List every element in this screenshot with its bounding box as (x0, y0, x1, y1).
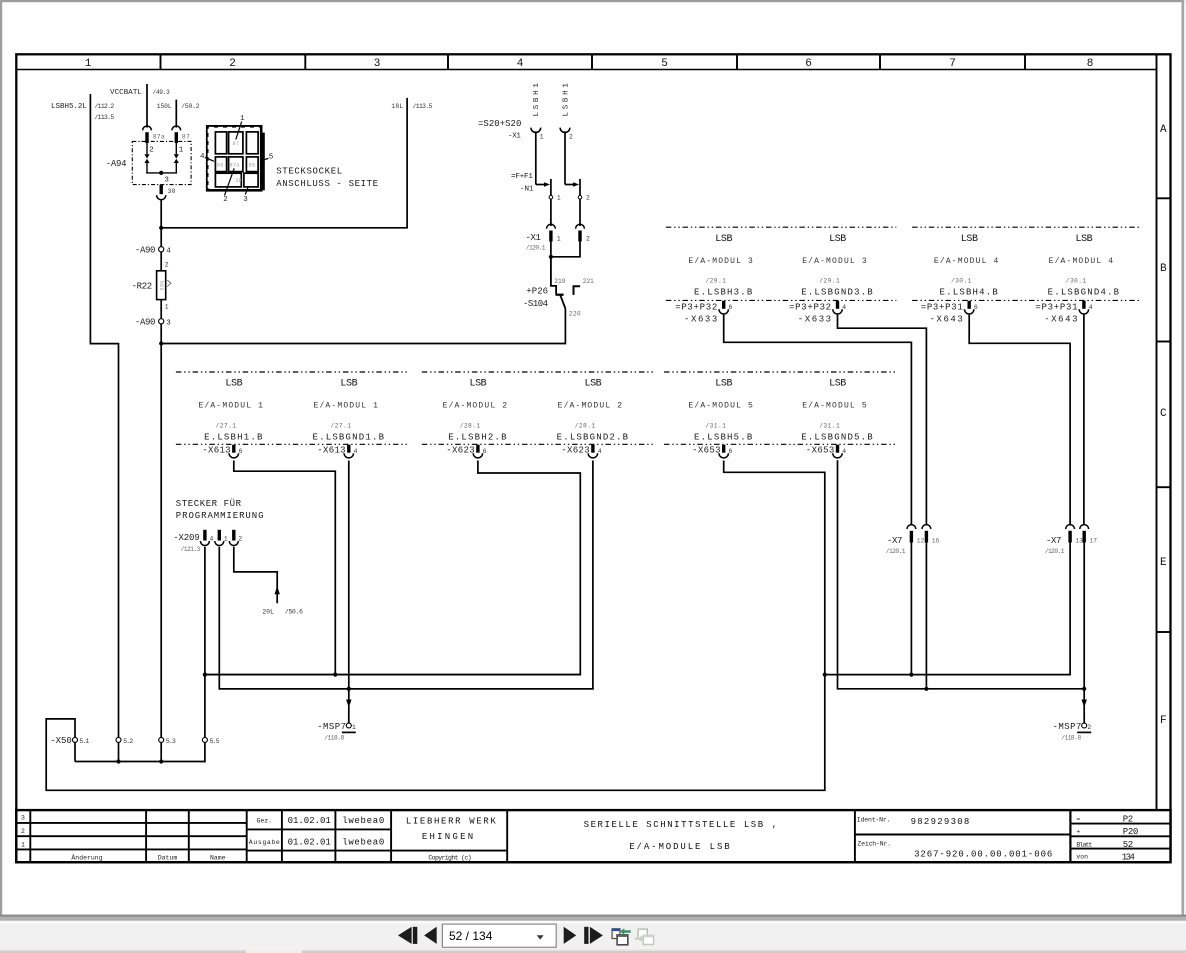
wire -X209:1 to bus B left (218, 547, 220, 690)
junction X1 pins (549, 255, 553, 259)
svg-text:86: 86 (217, 162, 224, 168)
ground -MSP7:1 /118.8 (317, 722, 356, 741)
svg-text:/49.3: /49.3 (153, 89, 171, 96)
svg-text:/112.2: /112.2 (95, 103, 115, 110)
wire -X7:12 to bus A right (910, 543, 912, 676)
svg-text:ANSCHLUSS - SEITE: ANSCHLUSS - SEITE (276, 179, 379, 189)
wire E.LSBH1.B to bus A left (234, 461, 335, 676)
svg-text:/113.5: /113.5 (413, 103, 433, 110)
bus A left segment (205, 674, 581, 676)
column header band (16, 54, 1156, 70)
svg-text:/113.5: /113.5 (95, 114, 115, 121)
relay socket -A94 (106, 126, 191, 200)
junction A94 pin3 (159, 171, 163, 175)
svg-text:20L: 20L (262, 609, 274, 616)
toolbar strip (0, 915, 1186, 918)
svg-text:500: 500 (159, 280, 165, 290)
svg-text:/31.1: /31.1 (819, 422, 840, 429)
svg-text:-X613: -X613 (317, 446, 346, 456)
svg-text:-X643: -X643 (930, 315, 964, 325)
svg-text:-A90: -A90 (135, 317, 156, 327)
svg-text:E.LSBH2.B: E.LSBH2.B (448, 432, 507, 442)
svg-text:134: 134 (1122, 852, 1135, 862)
svg-text:VCCBATL: VCCBATL (110, 89, 142, 97)
connector -X1 /120.1 pin 1 (526, 224, 561, 257)
svg-text:E/A-MODUL 4: E/A-MODUL 4 (1049, 257, 1114, 266)
svg-text:/27.1: /27.1 (216, 422, 237, 429)
svg-text:4: 4 (166, 247, 171, 255)
next page button (564, 927, 577, 944)
connector -X1 /120.1 pin 2 (552, 224, 590, 257)
svg-text:1: 1 (21, 841, 25, 848)
E/A-Modul 3 output E.LSBH3.B connector -X633:6 (675, 234, 753, 325)
svg-text:C: C (1160, 408, 1167, 420)
svg-text:/118.8: /118.8 (1061, 734, 1081, 741)
svg-text:87: 87 (233, 141, 240, 147)
svg-text:B: B (1160, 263, 1167, 275)
E/A module block border row C left (176, 371, 408, 373)
wire S104:220 to rail (162, 309, 565, 344)
svg-text:/30.1: /30.1 (1066, 278, 1087, 285)
svg-text:LSB: LSB (225, 379, 242, 390)
svg-text:85: 85 (249, 162, 256, 168)
svg-text:4: 4 (200, 153, 205, 161)
svg-text:-MSP7: -MSP7 (1053, 722, 1083, 732)
wire E.LSBH4.B to -X7:13 (969, 315, 1070, 526)
last page button (584, 927, 588, 944)
svg-text:150L: 150L (157, 103, 172, 110)
junction node to 18L rail (159, 226, 163, 230)
svg-text:4: 4 (210, 535, 214, 542)
svg-text:3267-920.00.00.001-006: 3267-920.00.00.001-006 (914, 849, 1052, 859)
svg-text:Zeich-Nr.: Zeich-Nr. (857, 840, 891, 847)
svg-text:P2: P2 (1123, 814, 1133, 824)
svg-text:221: 221 (583, 278, 594, 285)
row letter band A-F (1157, 54, 1171, 810)
svg-text:3: 3 (166, 319, 171, 327)
svg-text:E.LSBGND2.B: E.LSBGND2.B (557, 432, 630, 442)
connector -X209 /121.3 pin 1 (215, 530, 228, 546)
svg-text:E.LSBGND5.B: E.LSBGND5.B (801, 432, 874, 442)
wire E.LSBH5.B via bottom loop to -X50:5.1 (46, 461, 825, 791)
svg-text:E.LSBH3.B: E.LSBH3.B (694, 288, 753, 298)
svg-text:E/A-MODUL 3: E/A-MODUL 3 (688, 257, 753, 266)
svg-text:Ident-Nr.: Ident-Nr. (857, 817, 891, 824)
connector =S20+S20 -X1 pin 2 (560, 128, 573, 185)
svg-text:30: 30 (168, 188, 176, 195)
svg-text:2: 2 (238, 535, 242, 542)
svg-text:-R22: -R22 (132, 282, 153, 292)
wire E.LSBGND3.B to -X7:16 (838, 315, 927, 526)
connector -X50 pin 5.3 (159, 737, 176, 762)
svg-text:E.LSBH1.B: E.LSBH1.B (204, 432, 263, 442)
svg-text:/29.1: /29.1 (819, 278, 840, 285)
svg-text:E.LSBH4.B: E.LSBH4.B (940, 288, 999, 298)
svg-text:-X623: -X623 (446, 446, 475, 456)
svg-text:E/A-MODUL 1: E/A-MODUL 1 (314, 402, 379, 411)
svg-text:E/A-MODUL 5: E/A-MODUL 5 (802, 402, 867, 411)
svg-text:5.3: 5.3 (166, 738, 176, 745)
svg-text:LIEBHERR WERK: LIEBHERR WERK (406, 816, 496, 826)
svg-text:LSB: LSB (340, 379, 357, 390)
svg-text:/30.1: /30.1 (951, 278, 972, 285)
connector -A90 pin 4 (135, 228, 171, 256)
fuse =F+F1 -N1 pole 2 (565, 179, 590, 226)
svg-text:/31.1: /31.1 (705, 422, 726, 429)
svg-text:-X643: -X643 (1044, 315, 1078, 325)
E/A-Modul 5 output E.LSBGND5.B connector -X653:4 (801, 379, 874, 458)
svg-text:-X50: -X50 (50, 736, 72, 746)
svg-text:87a: 87a (230, 162, 240, 168)
svg-text:-MSP7: -MSP7 (317, 722, 347, 732)
previous view button (612, 928, 631, 945)
first page button (398, 927, 412, 944)
connector -X50 pin 5.5 (202, 737, 219, 762)
svg-text:+: + (1076, 828, 1080, 835)
E/A-Modul 2 output E.LSBH2.B connector -X623:6 (443, 379, 508, 458)
connector -X50 pin 5.2 (116, 737, 133, 762)
svg-text:5.2: 5.2 (123, 738, 133, 745)
svg-text:2: 2 (569, 133, 573, 140)
wire 150L from /50.2 (157, 100, 200, 128)
svg-text:Datum: Datum (158, 854, 178, 861)
svg-text:1: 1 (179, 147, 184, 155)
svg-text:=S20+S20: =S20+S20 (478, 119, 522, 129)
wire down to -X50:5.3 (160, 344, 162, 738)
svg-text:-X633: -X633 (798, 315, 832, 325)
svg-text:LSB: LSB (469, 379, 486, 390)
svg-text:+P26: +P26 (526, 286, 548, 296)
wire E.LSBGND1.B to -MSP7:1 (348, 461, 350, 724)
svg-text:2: 2 (586, 235, 590, 242)
svg-text:=F+F1: =F+F1 (511, 173, 533, 181)
page number combo box 52 / 134 (442, 924, 556, 947)
bus A left junctions (203, 673, 207, 677)
svg-text:1: 1 (165, 304, 169, 311)
svg-text:LSB: LSB (715, 234, 732, 245)
wire -X7:17 to -MSP7:2 (1083, 543, 1085, 724)
fuse =F+F1 -N1 pole 1 (511, 173, 561, 226)
svg-text:Gez.: Gez. (256, 818, 272, 825)
E/A-Modul 2 output E.LSBGND2.B connector -X623:4 (557, 379, 630, 458)
svg-text:-N1: -N1 (520, 185, 534, 193)
svg-text:/120.1: /120.1 (1045, 548, 1065, 555)
wire VCCBATL from /49.3 (110, 84, 170, 128)
svg-text:F: F (1160, 715, 1167, 727)
wire E.LSBGND4.B to -X7:17 (1083, 315, 1085, 526)
E/A-Modul 5 output E.LSBH5.B connector -X653:6 (688, 379, 753, 458)
svg-text:1: 1 (557, 195, 561, 202)
svg-text:3: 3 (164, 177, 169, 185)
svg-text:2: 2 (165, 262, 169, 269)
svg-text:1: 1 (557, 235, 561, 242)
svg-text:LSB: LSB (829, 234, 846, 245)
svg-text:LSB: LSB (961, 234, 978, 245)
svg-text:E.LSBGND1.B: E.LSBGND1.B (313, 432, 386, 442)
svg-text:/118.8: /118.8 (324, 734, 344, 741)
svg-text:Änderung: Änderung (71, 853, 102, 861)
title block (16, 810, 1170, 862)
svg-text:13: 13 (1075, 538, 1083, 545)
svg-text:6: 6 (805, 58, 812, 70)
svg-text:=: = (1076, 816, 1080, 823)
bus B right from E.LSBGND5.B (838, 460, 1085, 689)
resistor -R22 (132, 252, 171, 319)
svg-text:8: 8 (1087, 58, 1094, 70)
E/A-Modul 3 output E.LSBGND3.B connector -X633:4 (789, 234, 874, 325)
svg-text:Name: Name (210, 854, 226, 861)
connector -A90 pin 3 (135, 317, 171, 344)
ground -MSP7:2 /118.8 (1053, 722, 1092, 741)
connector -X209 /121.3 pin 2 (229, 530, 242, 546)
svg-text:Copyright (c): Copyright (c) (428, 854, 471, 861)
stecksockel socket face drawing (200, 115, 379, 204)
svg-text:/121.3: /121.3 (181, 546, 201, 553)
svg-text:LSB: LSB (715, 379, 732, 390)
svg-text:87a: 87a (153, 134, 165, 141)
svg-text:5.5: 5.5 (210, 738, 220, 745)
svg-text:E/A-MODUL 2: E/A-MODUL 2 (443, 402, 508, 411)
svg-text:-X209: -X209 (173, 533, 200, 543)
svg-text:STECKSOCKEL: STECKSOCKEL (276, 167, 343, 177)
svg-text:/28.1: /28.1 (575, 422, 596, 429)
E/A-Modul 4 output E.LSBH4.B connector -X643:6 (921, 234, 999, 325)
svg-text:/50.2: /50.2 (181, 103, 199, 110)
svg-text:/27.1: /27.1 (331, 422, 352, 429)
svg-text:3: 3 (243, 196, 248, 204)
svg-text:2: 2 (229, 58, 236, 70)
E/A module block border row C right (664, 371, 898, 373)
svg-text:7: 7 (949, 58, 956, 70)
svg-text:-X633: -X633 (684, 315, 718, 325)
svg-text:lwebea0: lwebea0 (342, 837, 384, 847)
svg-text:-S104: -S104 (523, 299, 549, 309)
svg-text:12: 12 (917, 538, 925, 545)
svg-text:E/A-MODUL 5: E/A-MODUL 5 (688, 402, 753, 411)
svg-text:4: 4 (517, 58, 524, 70)
svg-text:E.LSBGND4.B: E.LSBGND4.B (1048, 288, 1121, 298)
wire LSBH5.2L from /112.2 /113.5 down to -X50:5.2 (51, 94, 119, 737)
svg-text:LSBH5.2L: LSBH5.2L (51, 103, 87, 111)
svg-text:1: 1 (540, 133, 544, 140)
svg-text:3: 3 (374, 58, 381, 70)
svg-text:E/A-MODUL 4: E/A-MODUL 4 (934, 257, 999, 266)
wire E.LSBGND2.B to bus B left end (219, 461, 593, 689)
svg-text:lwebea0: lwebea0 (342, 816, 384, 826)
svg-text:-X653: -X653 (806, 446, 835, 456)
svg-text:30: 30 (235, 178, 242, 184)
svg-text:/120.1: /120.1 (526, 244, 546, 251)
svg-text:5.1: 5.1 (79, 738, 89, 745)
svg-text:E.LSBH5.B: E.LSBH5.B (694, 432, 753, 442)
svg-text:LSB: LSB (584, 379, 601, 390)
svg-text:-A94: -A94 (106, 159, 127, 169)
svg-text:E/A-MODUL 2: E/A-MODUL 2 (558, 402, 623, 411)
svg-text:LSB: LSB (829, 379, 846, 390)
svg-text:STECKER FÜR: STECKER FÜR (176, 498, 242, 509)
svg-text:1: 1 (352, 724, 356, 731)
E/A module block border row B left (666, 226, 897, 228)
svg-text:-X623: -X623 (561, 446, 590, 456)
svg-text:-X613: -X613 (202, 446, 231, 456)
svg-text:17: 17 (1090, 538, 1098, 545)
svg-text:-A90: -A90 (135, 245, 156, 255)
X50 common bus (75, 761, 205, 763)
E/A-Modul 1 output E.LSBGND1.B connector -X613:4 (313, 379, 386, 458)
svg-text:5: 5 (269, 154, 274, 162)
svg-text:1: 1 (224, 535, 228, 542)
svg-text:01.02.01: 01.02.01 (288, 816, 331, 826)
svg-text:220: 220 (569, 310, 581, 317)
svg-text:/120.1: /120.1 (886, 548, 906, 555)
svg-text:16: 16 (932, 538, 940, 545)
svg-text:-X1: -X1 (526, 233, 542, 243)
svg-text:219: 219 (554, 278, 566, 285)
svg-text:E/A-MODUL 1: E/A-MODUL 1 (199, 402, 264, 411)
connector -X209 /121.3 pin 4 (173, 530, 213, 553)
svg-text:=P3+P31: =P3+P31 (1035, 302, 1078, 312)
page navigation toolbar (398, 924, 654, 947)
wire E.LSBH2.B to bus A left end (205, 461, 580, 675)
connector -X50 pin 5.1 (50, 736, 89, 761)
svg-text:-X653: -X653 (692, 446, 721, 456)
svg-text:E/A-MODUL 3: E/A-MODUL 3 (802, 257, 867, 266)
connector -X7 /120.1 pin 12 (886, 525, 925, 555)
svg-text:Ausgabe: Ausgabe (249, 839, 280, 846)
svg-text:2: 2 (149, 147, 154, 155)
wire A94:30 down (160, 200, 162, 229)
svg-text:Blatt: Blatt (1076, 841, 1092, 848)
svg-text:=P3+P32: =P3+P32 (789, 302, 832, 312)
bus A right with -X7:13 drop (825, 543, 1070, 675)
connector -X7 /120.1 pin 13 (1045, 525, 1083, 555)
svg-text:PROGRAMMIERUNG: PROGRAMMIERUNG (176, 511, 264, 521)
svg-text:LSB: LSB (1075, 234, 1092, 245)
svg-text:982929308: 982929308 (911, 817, 970, 827)
svg-text:/50.6: /50.6 (285, 609, 303, 616)
svg-text:E: E (1160, 557, 1167, 569)
svg-text:-X7: -X7 (1046, 536, 1062, 546)
svg-text:P20: P20 (1123, 827, 1139, 837)
svg-text:A: A (1160, 124, 1167, 136)
E/A-Modul 1 output E.LSBH1.B connector -X613:6 (199, 379, 264, 458)
svg-text:52: 52 (1123, 840, 1133, 850)
E/A module block border row B right (912, 226, 1140, 228)
svg-text:5: 5 (661, 58, 668, 70)
svg-text:2: 2 (21, 828, 25, 835)
svg-text:52 / 134: 52 / 134 (449, 929, 493, 943)
svg-text:-X1: -X1 (508, 133, 521, 141)
svg-text:3: 3 (21, 815, 25, 822)
wire -X209:4 to bus A and -X50:5.5 (204, 547, 206, 738)
E/A-Modul 4 output E.LSBGND4.B connector -X643:4 (1035, 234, 1120, 325)
svg-text:=P3+P31: =P3+P31 (921, 302, 964, 312)
svg-text:/28.1: /28.1 (460, 422, 481, 429)
svg-text:=P3+P32: =P3+P32 (675, 302, 718, 312)
previous page button (424, 927, 437, 944)
switch +P26 -S104 (523, 257, 594, 318)
svg-text:E.LSBGND3.B: E.LSBGND3.B (801, 288, 874, 298)
connector -X7 /120.1 pin 16 (922, 525, 939, 545)
svg-text:2: 2 (1087, 724, 1091, 731)
svg-text:von: von (1076, 854, 1088, 861)
wire E.LSBH3.B to -X7:12 (724, 315, 912, 526)
svg-text:87: 87 (182, 134, 190, 141)
junction node to S104 rail (159, 341, 163, 345)
bus B left segment (219, 688, 593, 690)
next view button (disabled) (635, 929, 654, 944)
svg-text:01.02.01: 01.02.01 (288, 837, 331, 847)
E/A module block border row C middle (422, 371, 654, 373)
svg-text:1: 1 (85, 58, 92, 70)
wire -X209:2 to 20L /50.6 (234, 547, 303, 616)
svg-text:1: 1 (240, 115, 245, 123)
wire 18L from /113.5 (162, 98, 433, 228)
svg-text:SERIELLE SCHNITTSTELLE LSB ,: SERIELLE SCHNITTSTELLE LSB , (584, 820, 778, 830)
svg-text:2: 2 (223, 196, 228, 204)
svg-text:18L: 18L (391, 103, 403, 110)
svg-text:2: 2 (586, 195, 590, 202)
svg-text:-X7: -X7 (887, 536, 903, 546)
connector -X7 /120.1 pin 17 (1080, 525, 1097, 545)
svg-text:/29.1: /29.1 (705, 278, 726, 285)
connector =S20+S20 -X1 pin 1 (478, 119, 544, 184)
svg-text:EHINGEN: EHINGEN (422, 832, 473, 842)
wire -X7:16 to bus B right (925, 543, 927, 690)
